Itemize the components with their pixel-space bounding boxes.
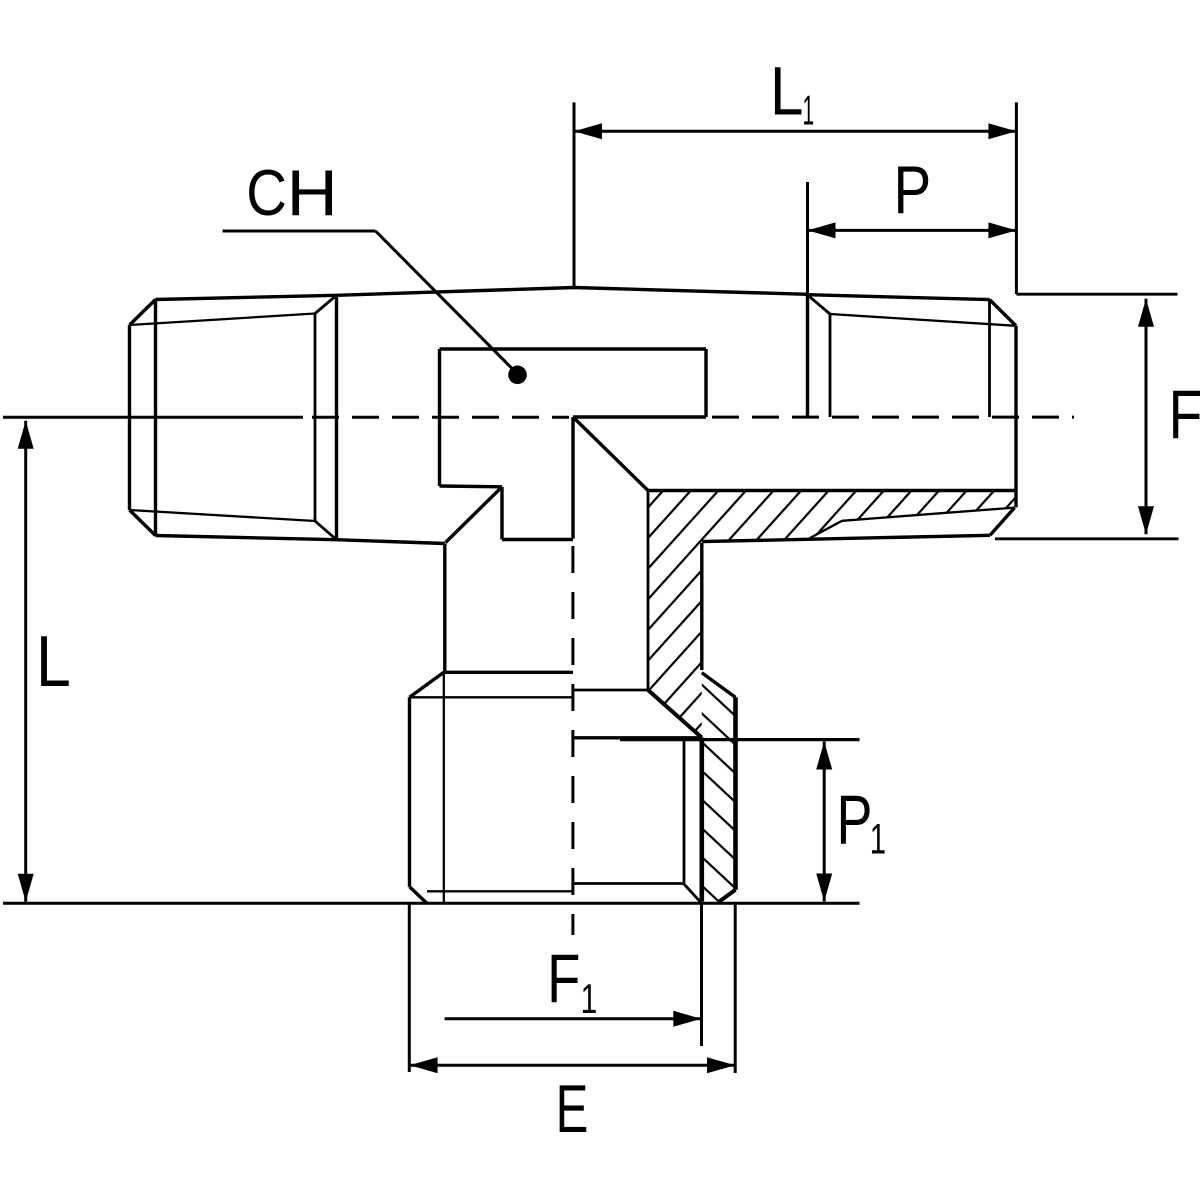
left hex bottom face line [130,510,316,521]
CH notch right edge [704,349,707,417]
leg bottom chamfer right [719,890,736,902]
leg cone circle line [573,689,648,692]
right arm end chamfer top [990,300,1017,326]
leg thread top circle line [573,736,702,739]
leg neck left edge [443,544,446,673]
leg entrance chamfer diagonal [684,884,702,903]
left hex chamfer top-right [315,295,337,313]
left hex outer right vertical [335,295,338,539]
svg-text:1: 1 [803,88,815,135]
E dimension line [410,1064,735,1067]
svg-text:1: 1 [870,815,886,863]
svg-text:L: L [770,52,803,130]
arm bottom edge [702,535,990,541]
svg-text:L: L [36,622,71,702]
svg-text:1: 1 [581,975,598,1022]
horizontal centerline dashed left [312,416,569,419]
vertical centerline dashed lower [571,546,574,935]
leg neck right edge [700,543,703,670]
P left extension line [806,182,809,294]
left hex top face line [130,314,316,326]
L dimension line [24,421,27,902]
right arm end face [1014,326,1017,508]
hatched section: leg female-thread wall [702,740,736,902]
leg cone edge diagonal [648,690,702,738]
L arrow up [18,421,34,449]
E arrow left [410,1057,438,1073]
left hex nut outer left edge [128,325,131,510]
left hex inner left vertical [154,300,157,536]
left hex bottom edge [156,536,337,540]
F top extension line [1016,293,1177,296]
svg-text:F: F [1169,376,1200,453]
leg bottom chamfer circle line [427,890,573,892]
L1 arrow left [574,123,602,139]
hatched section: arm bottom wall and leg upper wall [648,491,1015,738]
hatched section: leg chamfer shoulder wedge [702,673,736,740]
arm root line mirrored [842,508,1015,521]
left hex chamfer bottom-right [315,521,337,540]
F1 dimension line [445,1017,702,1020]
arm chamfer mirrored [810,521,842,538]
left hex inner right vertical [314,314,317,522]
svg-text:P: P [837,781,873,859]
leg female thread major line [699,738,704,902]
E right extension line [734,903,737,1073]
section edge on centerline horizontal [573,415,706,418]
svg-text:P: P [894,152,932,228]
CH notch bottom-left edge [440,484,503,488]
F1 arrow right [673,1011,701,1027]
left hex top edge [156,295,337,299]
F1 right extension line [700,903,703,1046]
arm bore line in section [648,489,1015,492]
E arrow right [707,1057,735,1073]
L1 arrow right [988,123,1016,139]
P1 arrow up [816,742,832,770]
leg thread chamfer right [702,673,736,698]
leg OD right edge [733,697,738,889]
vertical centerline L1 extension solid [573,102,576,287]
leg OD left edge [408,697,411,886]
svg-text:E: E [556,1071,589,1146]
leg face line left [410,696,574,698]
L1 dimension line [574,130,1016,133]
horizontal centerline solid left / L top extension [3,416,303,419]
leg entrance chamfer circle line [573,882,684,885]
CH notch left edge [438,349,441,486]
P dimension line [808,229,1017,232]
body top outline [337,288,808,296]
CH notch diagonal to leg [446,487,503,543]
CH leader horizontal [223,230,376,233]
CH notch step bottom [502,538,573,541]
P1 top extension line [620,738,860,741]
right arm vertical at root chamfer [829,314,832,417]
body bottom outline left [337,540,445,544]
F bottom extension line [995,537,1179,540]
svg-text:C: C [246,156,287,229]
right arm vertical at end chamfer [988,300,991,417]
bottom reference line [3,902,860,905]
leg bore wall in section [647,491,650,691]
F dimension line [1145,299,1148,535]
left hex chamfer top-left [130,300,156,326]
left hex chamfer bottom-left [130,510,156,536]
right arm shoulder vertical [806,294,809,417]
CH notch step vertical [500,487,503,540]
P arrow left [808,222,836,238]
horizontal centerline dashed right [712,416,1074,419]
CH leader dot [508,366,527,385]
section edge vertical at leg center [571,417,574,539]
L1 P right extension line [1015,102,1018,294]
E left extension line [408,903,411,1072]
F arrow down [1138,506,1154,534]
CH leader diagonal [376,231,518,374]
right arm thread root line [830,314,1016,326]
right arm OD taper line [808,295,990,300]
svg-text:F: F [547,941,580,1018]
leg thread top edge [444,671,573,674]
P1 dimension line [823,742,826,902]
leg bottom chamfer left [410,887,428,904]
leg thread chamfer left [410,672,444,697]
L arrow down [18,874,34,902]
P1 arrow down [816,874,832,902]
right arm thread chamfer [808,295,831,314]
svg-text:H: H [287,157,338,230]
F arrow up [1138,299,1154,327]
leg female thread minor line [683,741,686,883]
internal cone edge 45deg [573,417,648,491]
leg root line left [443,672,445,903]
arm bottom end chamfer [990,508,1015,536]
P arrow right [988,222,1016,238]
CH notch top edge [440,347,707,350]
